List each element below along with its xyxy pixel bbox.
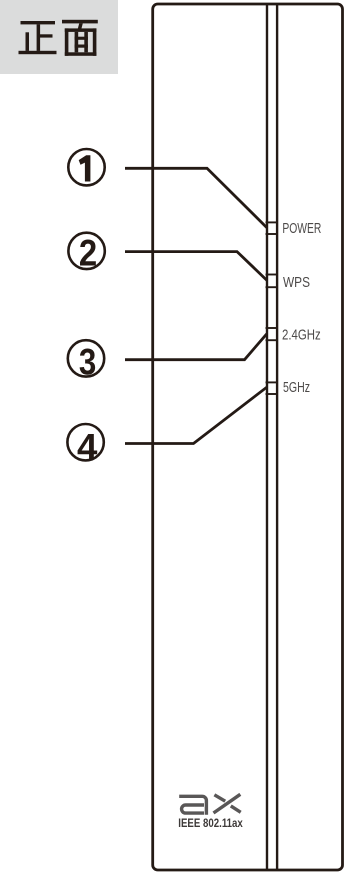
svg-text:3: 3 — [79, 341, 96, 382]
leader line 1 (to POWER LED) — [125, 168, 267, 227]
LED 2.4GHz box ticks — [266, 328, 279, 340]
callout circle 3 — [68, 340, 104, 382]
LED WPS box ticks — [266, 275, 279, 288]
leader line 4 (to 5GHz LED) — [125, 387, 267, 443]
svg-text:WPS: WPS — [283, 275, 310, 291]
svg-text:4: 4 — [77, 426, 98, 467]
LED 5GHz box ticks — [266, 382, 279, 394]
kanji SEI (正) of title 正面 — [19, 21, 57, 54]
callout circle 4 — [67, 424, 103, 467]
LED strip left line — [266, 5, 268, 870]
kanji MEN (面) of title 正面 — [62, 20, 98, 56]
svg-text:2: 2 — [79, 233, 97, 274]
callout circle 2 — [68, 233, 104, 274]
callout circle 1 — [68, 149, 104, 185]
svg-text:2.4GHz: 2.4GHz — [282, 328, 321, 344]
router body outline — [153, 4, 343, 870]
svg-text:5GHz: 5GHz — [283, 380, 310, 396]
LED POWER box ticks — [266, 222, 279, 234]
svg-text:POWER: POWER — [282, 221, 321, 237]
svg-text:IEEE 802.11ax: IEEE 802.11ax — [178, 817, 243, 830]
logo letter a — [179, 796, 206, 815]
leader line 3 (to 2.4GHz LED) — [125, 334, 267, 360]
leader line 2 (to WPS LED) — [125, 252, 267, 281]
gray title box — [0, 0, 118, 74]
logo letter x — [214, 794, 241, 813]
LED strip right line — [276, 5, 278, 870]
